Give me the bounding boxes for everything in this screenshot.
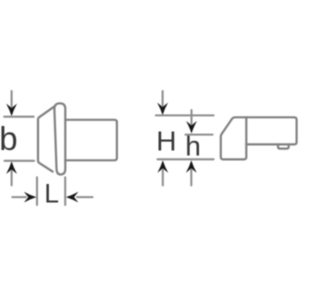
svg-text:b: b	[0, 120, 18, 157]
svg-text:h: h	[185, 131, 201, 162]
svg-text:L: L	[44, 179, 59, 209]
svg-text:H: H	[156, 125, 176, 156]
